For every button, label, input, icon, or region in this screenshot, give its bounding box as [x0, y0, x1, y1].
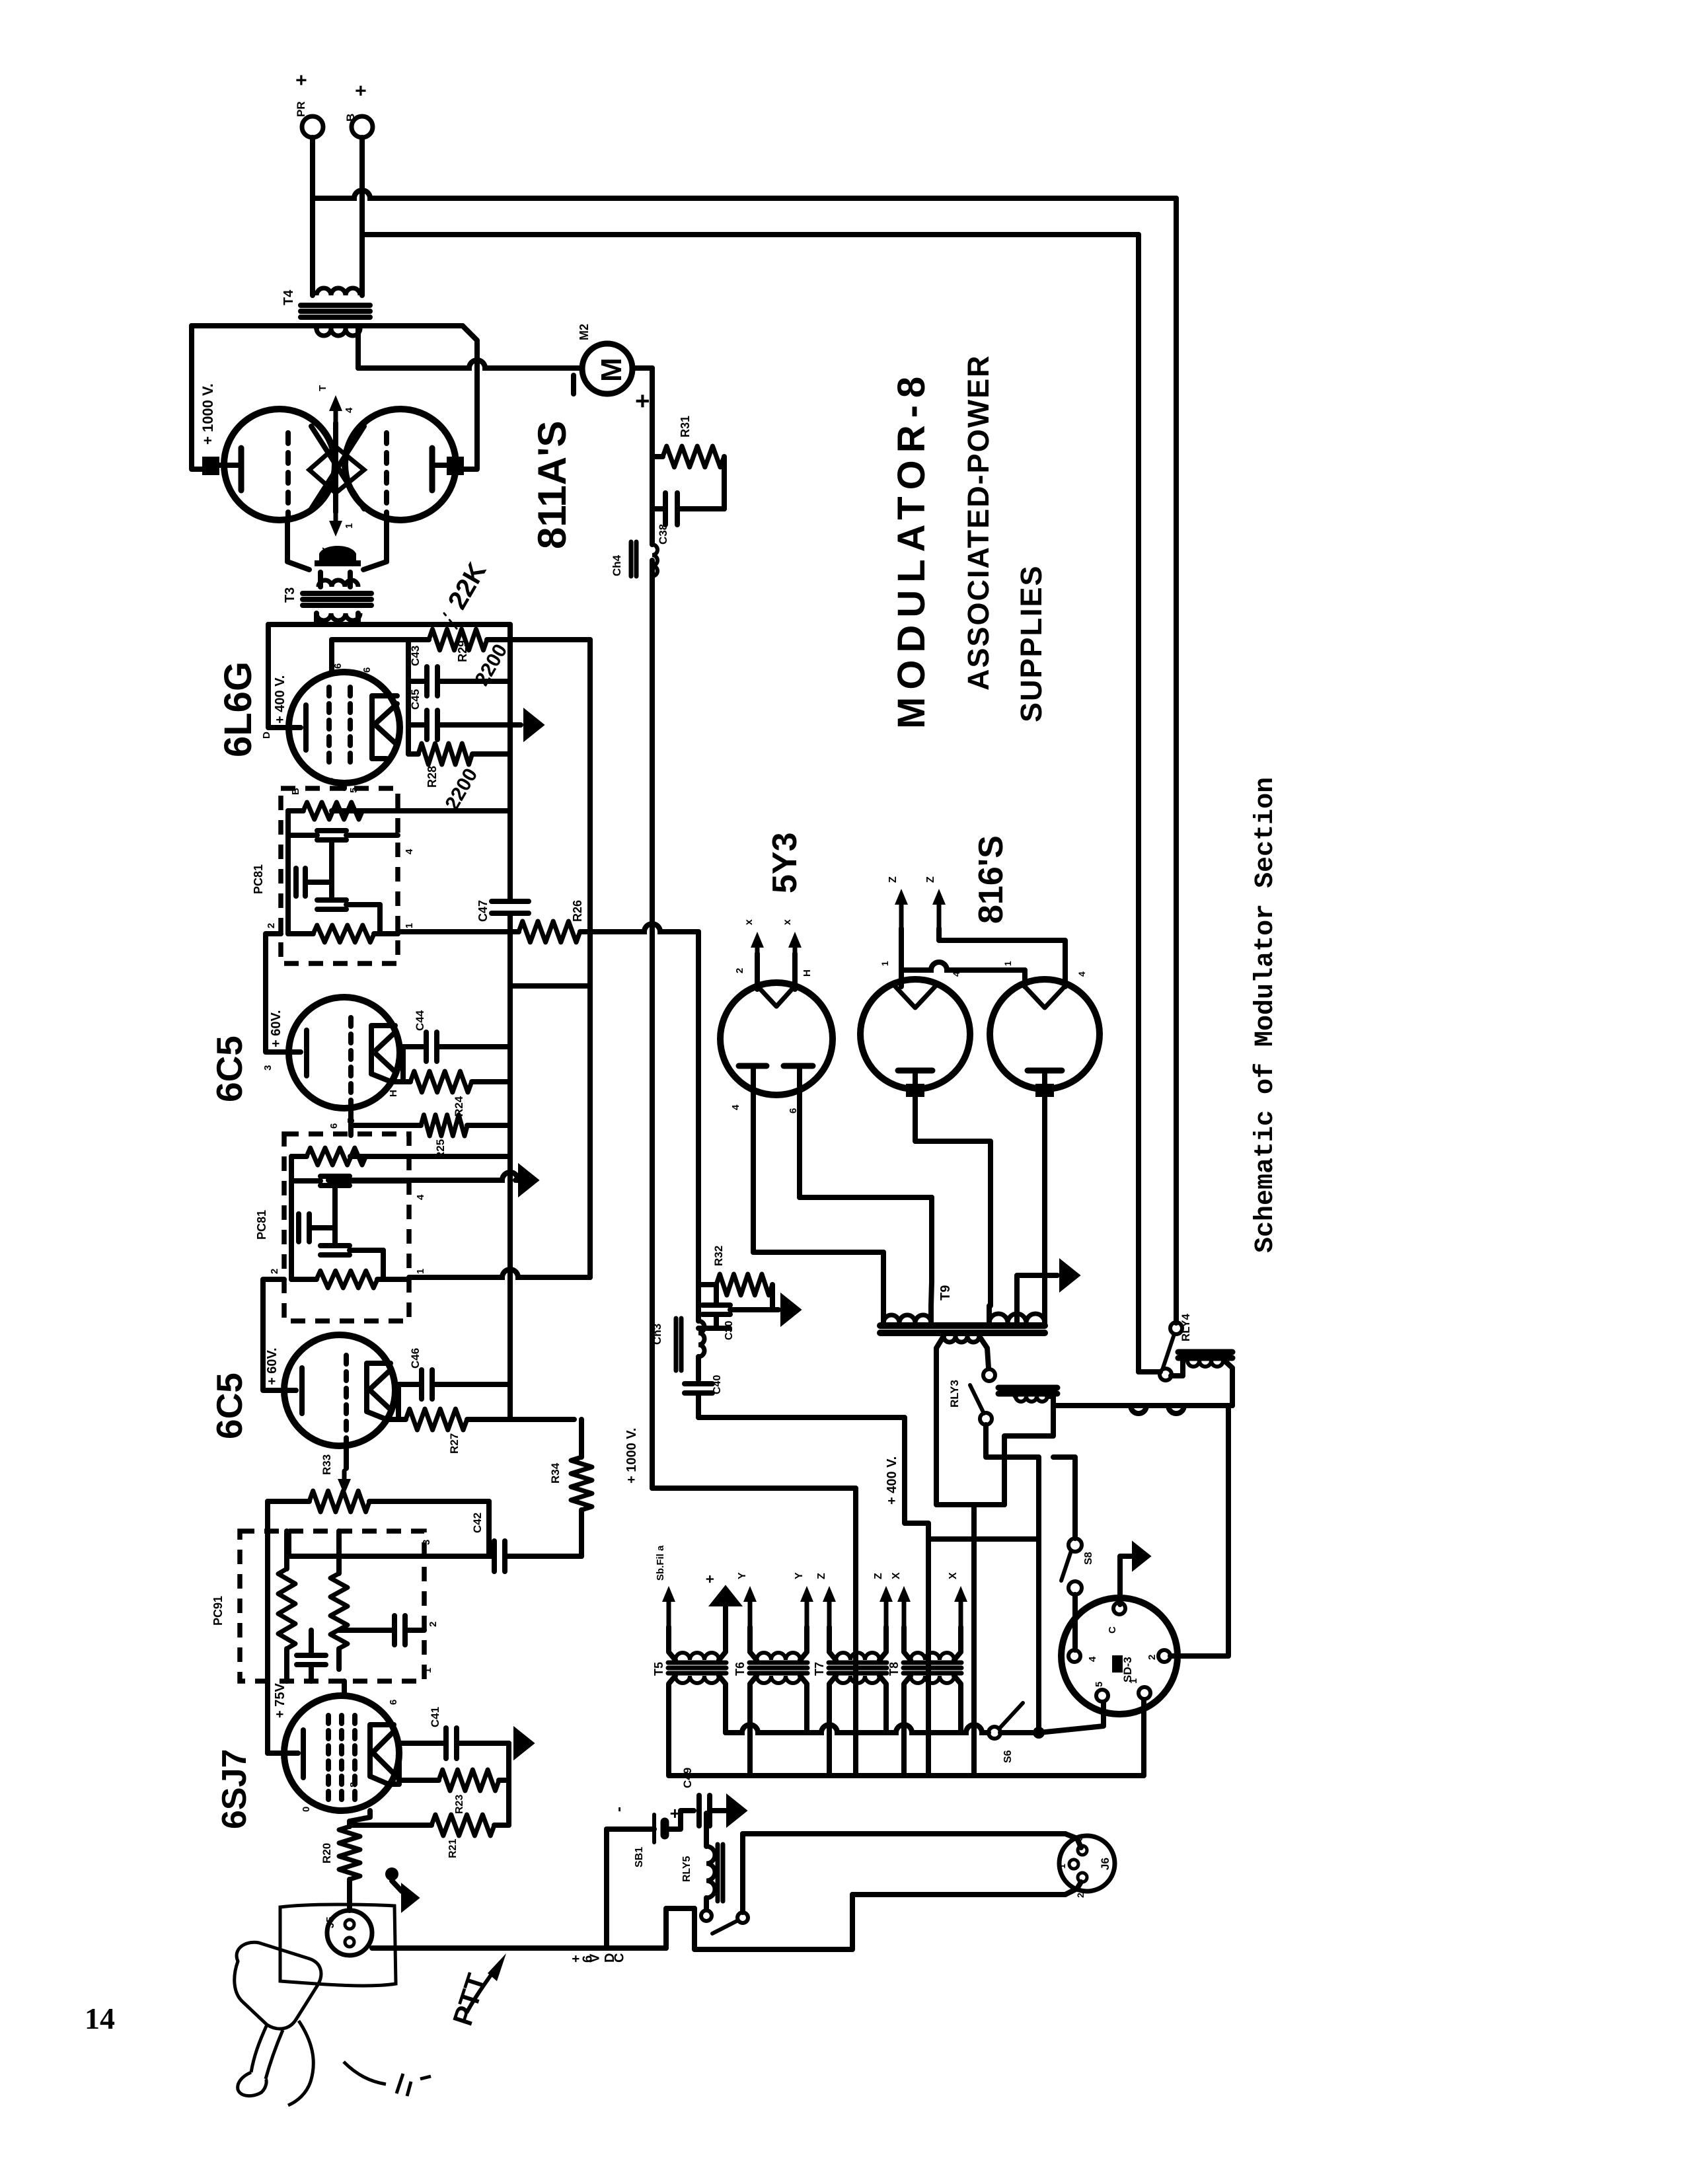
- svg-text:4: 4: [415, 1194, 426, 1200]
- svg-text:2: 2: [1146, 1655, 1158, 1660]
- svg-text:6: 6: [388, 1700, 399, 1705]
- svg-text:+ 1000 V.: + 1000 V.: [624, 1428, 639, 1484]
- svg-text:R31: R31: [679, 416, 692, 437]
- svg-text:4: 4: [951, 971, 961, 977]
- svg-text:PR: PR: [295, 101, 307, 117]
- svg-text:6: 6: [332, 663, 344, 669]
- svg-text:C44: C44: [414, 1010, 426, 1031]
- svg-text:R29: R29: [456, 640, 469, 662]
- svg-text:6: 6: [328, 1123, 340, 1129]
- svg-text:C49: C49: [681, 1768, 694, 1788]
- svg-text:C45: C45: [409, 689, 422, 710]
- svg-text:3: 3: [421, 1540, 432, 1545]
- svg-text:T: T: [317, 385, 328, 391]
- svg-text:Z: Z: [816, 1573, 827, 1579]
- svg-text:4: 4: [730, 1104, 741, 1110]
- svg-text:C41: C41: [429, 1707, 441, 1727]
- svg-text:1: 1: [404, 923, 415, 928]
- svg-text:+: +: [291, 74, 313, 86]
- svg-text:R20: R20: [320, 1843, 333, 1864]
- svg-text:X: X: [948, 1572, 959, 1579]
- svg-text:Z: Z: [925, 876, 936, 883]
- svg-text:SUPPLIES: SUPPLIES: [1014, 564, 1048, 722]
- svg-text:5Y3: 5Y3: [766, 832, 804, 893]
- svg-text:+ 1000 V.: + 1000 V.: [200, 383, 216, 445]
- svg-text:R33: R33: [320, 1454, 333, 1475]
- svg-text:PC81: PC81: [252, 864, 265, 894]
- svg-text:M: M: [595, 358, 628, 382]
- svg-text:2: 2: [1075, 1893, 1086, 1898]
- svg-text:PC91: PC91: [211, 1596, 225, 1626]
- svg-text:1: 1: [880, 961, 890, 966]
- svg-text:3: 3: [262, 1065, 274, 1071]
- svg-text:RLY5: RLY5: [681, 1856, 693, 1882]
- svg-text:2: 2: [428, 1622, 439, 1627]
- svg-text:H: H: [802, 969, 813, 977]
- svg-text:SB1: SB1: [634, 1847, 645, 1867]
- svg-text:R21: R21: [447, 1839, 459, 1858]
- svg-text:6C5: 6C5: [209, 1036, 250, 1102]
- svg-text:6SJ7: 6SJ7: [215, 1749, 254, 1829]
- svg-text:T6: T6: [733, 1662, 747, 1676]
- svg-text:5: 5: [361, 1815, 373, 1821]
- svg-text:B: B: [344, 114, 357, 122]
- svg-text:6: 6: [325, 778, 336, 783]
- svg-text:2: 2: [734, 968, 745, 973]
- svg-text:0: 0: [301, 1807, 312, 1812]
- svg-text:1: 1: [422, 1668, 433, 1673]
- svg-text:6L6G: 6L6G: [217, 661, 260, 757]
- svg-text:811A'S: 811A'S: [530, 421, 574, 549]
- svg-text:8: 8: [348, 1782, 359, 1788]
- svg-text:T4: T4: [281, 289, 296, 305]
- svg-text:MODULATOR-8: MODULATOR-8: [890, 369, 933, 729]
- svg-text:1: 1: [344, 523, 355, 529]
- svg-text:+: +: [702, 1575, 718, 1583]
- svg-text:J5: J5: [325, 1916, 336, 1928]
- svg-text:6: 6: [788, 1108, 799, 1113]
- svg-text:+ 400 V.: + 400 V.: [885, 1456, 899, 1505]
- svg-text:816'S: 816'S: [972, 835, 1010, 924]
- svg-text:Ch3: Ch3: [651, 1324, 663, 1345]
- svg-text:Z: Z: [873, 1573, 884, 1579]
- svg-text:4: 4: [344, 407, 355, 413]
- svg-text:1: 1: [1057, 1864, 1067, 1869]
- svg-text:C: C: [1107, 1626, 1118, 1634]
- svg-text:14: 14: [85, 2002, 115, 2035]
- svg-text:S8: S8: [1083, 1552, 1094, 1565]
- svg-text:C42: C42: [471, 1513, 484, 1533]
- svg-text:Schematic of Modulator Section: Schematic of Modulator Section: [1251, 777, 1281, 1253]
- svg-text:C43: C43: [409, 646, 422, 666]
- svg-text:Sb.Fil a: Sb.Fil a: [655, 1545, 666, 1581]
- svg-text:C40: C40: [712, 1375, 723, 1394]
- svg-text:+: +: [665, 1809, 685, 1819]
- svg-text:T5: T5: [652, 1662, 665, 1676]
- svg-text:1: 1: [1128, 1678, 1139, 1684]
- svg-text:x: x: [782, 919, 793, 925]
- svg-text:C30: C30: [724, 1321, 735, 1340]
- svg-text:R28: R28: [426, 766, 439, 788]
- svg-text:1: 1: [1002, 961, 1013, 966]
- svg-text:2: 2: [266, 923, 277, 928]
- svg-text:C38: C38: [657, 524, 669, 545]
- svg-text:R32: R32: [712, 1246, 725, 1266]
- svg-text:1: 1: [415, 1269, 426, 1274]
- svg-text:C47: C47: [476, 900, 490, 922]
- svg-text:+ 75V.: + 75V.: [273, 1680, 287, 1718]
- svg-text:x: x: [743, 919, 755, 925]
- svg-text:+ 400 V.: + 400 V.: [273, 675, 287, 724]
- svg-text:R26: R26: [571, 900, 584, 922]
- svg-text:RLY3: RLY3: [948, 1380, 961, 1408]
- svg-text:+: +: [350, 85, 372, 96]
- svg-text:C46: C46: [409, 1348, 422, 1369]
- svg-text:T8: T8: [887, 1662, 901, 1676]
- svg-text:M2: M2: [578, 324, 591, 340]
- svg-text:D: D: [261, 732, 272, 739]
- svg-text:4: 4: [404, 848, 415, 854]
- svg-text:ASSOCIATED-POWER: ASSOCIATED-POWER: [961, 354, 995, 691]
- svg-text:S6: S6: [1002, 1750, 1014, 1763]
- svg-text:4: 4: [1076, 971, 1087, 977]
- svg-text:6: 6: [361, 667, 373, 673]
- svg-text:Y: Y: [794, 1572, 805, 1579]
- svg-text:R23: R23: [454, 1795, 465, 1814]
- svg-text:T7: T7: [813, 1662, 826, 1676]
- svg-text:2: 2: [269, 1269, 280, 1274]
- svg-text:4: 4: [1087, 1656, 1098, 1662]
- svg-text:R27: R27: [448, 1433, 461, 1454]
- svg-text:6C5: 6C5: [209, 1373, 250, 1439]
- svg-text:Ch4: Ch4: [611, 554, 623, 576]
- svg-text:+ 60V.: + 60V.: [265, 1347, 280, 1385]
- svg-text:PC81: PC81: [255, 1210, 268, 1240]
- svg-text:T9: T9: [938, 1285, 953, 1300]
- svg-text:H: H: [388, 1090, 399, 1097]
- svg-text:X: X: [891, 1572, 902, 1579]
- svg-text:5: 5: [346, 1118, 357, 1123]
- svg-text:T3: T3: [283, 587, 297, 603]
- svg-text:J6: J6: [1099, 1858, 1111, 1870]
- svg-text:R34: R34: [549, 1462, 562, 1484]
- svg-text:RLY4: RLY4: [1179, 1314, 1192, 1341]
- svg-text:5: 5: [1094, 1682, 1105, 1687]
- svg-text:+ 60V.: + 60V.: [269, 1010, 283, 1047]
- svg-text:Y: Y: [737, 1572, 748, 1579]
- svg-text:Z: Z: [887, 876, 899, 883]
- svg-text:-: -: [610, 1807, 628, 1812]
